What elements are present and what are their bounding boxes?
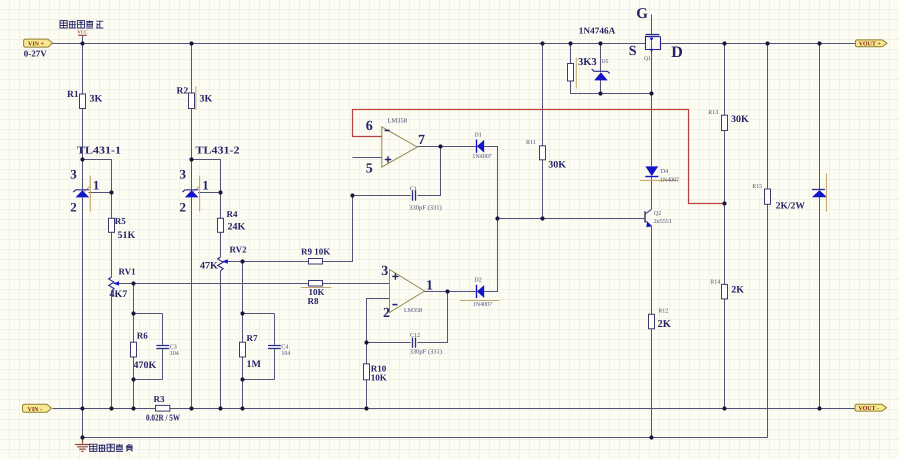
svg-text:TL431-1: TL431-1 — [77, 146, 121, 157]
wire MOSFET gate stem from G — [651, 15, 653, 35]
wire RV1 wiper tap down to R6C3 — [133, 284, 135, 314]
svg-text:2K/2W: 2K/2W — [776, 201, 806, 211]
wire C4 leads — [274, 314, 276, 380]
wire top rail MOSFET D stub to VOUT+ — [661, 43, 856, 45]
svg-text:1M: 1M — [247, 359, 262, 370]
wire R7C4 down to rail — [242, 380, 244, 409]
svg-text:1N4007: 1N4007 — [472, 154, 491, 160]
wire C1 right lead up to output — [417, 147, 440, 196]
port VOUT- — [855, 404, 887, 412]
svg-text:R7: R7 — [247, 333, 258, 343]
svg-text:C4: C4 — [281, 344, 288, 350]
svg-text:1: 1 — [93, 178, 100, 193]
svg-text:LM358: LM358 — [388, 118, 408, 125]
svg-text:G: G — [636, 6, 648, 22]
resistor R5 — [109, 216, 136, 241]
wire clamp bottom bar — [571, 93, 652, 95]
svg-text:47K: 47K — [200, 261, 218, 272]
wire R12 bottom to ground rail — [651, 329, 653, 438]
wire R10 bottom to rail — [366, 380, 368, 409]
wire R9 right lead up to op-amp1 pin5 chain — [323, 196, 353, 262]
svg-text:3: 3 — [381, 264, 388, 279]
resistor R6 — [131, 331, 157, 371]
wire R11 top lead from rail — [542, 44, 544, 146]
label 远动电源 正 (net name, positive supply) — [60, 21, 103, 28]
svg-text:2: 2 — [70, 200, 77, 215]
svg-text:104: 104 — [170, 351, 179, 357]
svg-text:51K: 51K — [118, 230, 136, 241]
svg-text:VIN -: VIN - — [28, 407, 43, 413]
resistor R2 — [177, 86, 213, 110]
wire RV2 bottom to rail — [220, 271, 222, 409]
wire R13 to R14 — [724, 131, 726, 285]
svg-text:D5: D5 — [602, 59, 609, 65]
svg-text:3K: 3K — [90, 94, 103, 105]
transistor Q2 2n5551 — [645, 209, 672, 227]
capacitor C12 — [410, 333, 442, 355]
wire R6 leads — [133, 314, 135, 380]
svg-text:C1: C1 — [410, 186, 417, 192]
wire R2 top lead — [191, 44, 193, 94]
resistor R13 — [708, 110, 749, 131]
wire R14 bottom to rail — [724, 299, 726, 409]
wire op-amp1 output to D1 — [417, 146, 476, 148]
resistor R10 — [364, 364, 387, 383]
wire TL431-2 anode down to bottom rail — [191, 198, 193, 409]
wire R1 top lead — [82, 44, 84, 95]
wire RV2 wiper tap down to R7C4 — [242, 262, 244, 314]
diode D4 1N4007 — [640, 166, 679, 183]
wire R4 bottom to RV2 — [220, 232, 222, 257]
wire R6C3 down to rail — [133, 380, 135, 409]
svg-text:5: 5 — [366, 162, 373, 177]
wire C3 leads — [162, 314, 164, 380]
label 远动电源 负 (net name, negative supply) — [90, 444, 133, 451]
svg-text:R13: R13 — [708, 110, 718, 116]
wire R5 top lead — [111, 193, 113, 219]
resistor R11 — [526, 140, 566, 170]
MOSFET Q1 — [629, 6, 683, 62]
wire R7 leads — [242, 314, 244, 380]
wire RV1 bottom to rail — [111, 291, 113, 409]
wire red net op-amp1 pin6 to R13/R14 junction — [353, 110, 725, 204]
wire D5 bottom lead — [600, 80, 602, 93]
svg-text:330pF (331): 330pF (331) — [410, 348, 442, 355]
wire R6C3 top bar — [134, 313, 163, 315]
wire D4 to Q2 collector — [651, 177, 653, 210]
svg-text:24K: 24K — [228, 222, 246, 233]
wire R8 right lead to op-amp2 pin3 — [323, 283, 390, 285]
resistor R14 — [710, 279, 744, 299]
svg-text:2: 2 — [383, 306, 390, 321]
svg-text:2K: 2K — [658, 319, 672, 330]
wire TL431-1 anode down to bottom rail — [82, 198, 84, 409]
ground symbol — [75, 438, 90, 452]
svg-text:VOUT +: VOUT + — [859, 41, 882, 47]
resistor R15 — [752, 184, 805, 211]
svg-text:2K: 2K — [731, 285, 744, 296]
resistor R16 3K3 — [568, 26, 616, 89]
svg-text:6: 6 — [366, 119, 373, 134]
svg-text:VIN +: VIN + — [28, 42, 45, 48]
svg-text:7: 7 — [418, 133, 425, 148]
op-amp U1A LM358 — [366, 118, 425, 177]
wire R4 top lead — [220, 193, 222, 219]
svg-text:D: D — [671, 44, 683, 61]
wire R6C3 bottom bar — [134, 379, 163, 381]
svg-text:330pF (331): 330pF (331) — [409, 204, 441, 211]
wire TL431-1 ref pin1 — [89, 192, 112, 194]
wire D1 to drop node — [484, 147, 497, 219]
wire op-amp2 pin2 feedback — [367, 299, 390, 343]
wire R7C4 bottom bar — [243, 379, 275, 381]
wire RV2 wiper to R9 — [227, 261, 309, 263]
wire RV1 wiper to R8 line — [118, 283, 309, 285]
svg-text:R5: R5 — [115, 216, 126, 226]
wire ground drop from bottom rail — [82, 409, 84, 438]
capacitor C3 — [156, 344, 178, 357]
svg-text:S: S — [629, 44, 637, 59]
svg-text:3K: 3K — [200, 94, 213, 105]
wire C12 left branch — [367, 342, 411, 344]
svg-text:R9 10K: R9 10K — [301, 247, 330, 257]
wire Q2 emitter down to R12 — [651, 226, 653, 314]
diode D2 1N4007 — [460, 278, 500, 308]
op-amp U1B LM358 — [381, 264, 433, 321]
wire R13 chain top — [724, 44, 726, 116]
resistor R7 — [240, 333, 262, 370]
potentiometer RV2 — [200, 245, 247, 272]
wire op-amp1 pin5 — [353, 157, 382, 159]
svg-text:R4: R4 — [227, 209, 238, 219]
wire bottom rail R3 to VOUT- — [170, 408, 855, 410]
svg-text:D4: D4 — [661, 169, 668, 175]
wire R7C4 top bar — [243, 313, 275, 315]
svg-text:30K: 30K — [731, 114, 749, 125]
resistor R4 — [218, 209, 246, 233]
TL431 U1 TL431-1 — [70, 146, 121, 215]
resistor R12 — [649, 308, 672, 330]
svg-text:R6: R6 — [137, 331, 148, 341]
diode D1 1N4007 — [472, 133, 491, 161]
svg-text:TL431-2: TL431-2 — [196, 146, 240, 157]
svg-text:1N4007: 1N4007 — [660, 177, 679, 183]
svg-text:R14: R14 — [710, 279, 720, 285]
svg-text:R12: R12 — [658, 308, 668, 314]
svg-text:R11: R11 — [526, 140, 536, 146]
wire D2 to rise node — [484, 219, 497, 292]
wire TL431-2 feedback top — [192, 160, 221, 193]
wire TL431-2 ref pin1 — [198, 192, 221, 194]
svg-text:D1: D1 — [474, 133, 481, 139]
svg-text:3K3: 3K3 — [578, 57, 597, 68]
svg-text:R8: R8 — [308, 296, 319, 306]
wire R5 bottom to RV1 — [111, 232, 113, 277]
wire op-amp2 output to D2 — [425, 291, 476, 293]
wire R15 chain bottom corner — [767, 204, 769, 437]
svg-text:2: 2 — [180, 200, 187, 215]
svg-text:0-27V: 0-27V — [24, 49, 47, 59]
power flag VCC — [77, 30, 88, 36]
svg-text:R2: R2 — [177, 87, 189, 97]
svg-text:R1: R1 — [67, 90, 79, 100]
wire output diode column bottom — [819, 197, 821, 409]
wire VCC stem — [82, 35, 84, 43]
svg-text:RV2: RV2 — [230, 245, 248, 255]
wire 3K3 top lead — [570, 44, 572, 64]
wire R1 bottom to TL431-1 cathode — [82, 109, 84, 192]
svg-text:RV1: RV1 — [119, 267, 137, 277]
resistor R3 — [146, 394, 180, 423]
resistor R1 — [67, 90, 103, 109]
wire bottom-most ground rail — [83, 437, 768, 439]
wire bottom rail VIN- to R3 — [53, 408, 156, 410]
wire diode node to Q2 base — [498, 218, 646, 220]
svg-text:470K: 470K — [134, 360, 157, 371]
TL431 U2 TL431-2 — [180, 146, 240, 215]
svg-text:VOUT -: VOUT - — [858, 406, 879, 412]
svg-text:3: 3 — [180, 167, 187, 182]
svg-text:C12: C12 — [410, 333, 420, 339]
wire MOSFET source column down to D4 — [651, 41, 653, 166]
svg-text:0.02R / 5W: 0.02R / 5W — [146, 413, 180, 423]
resistor R9 — [301, 247, 330, 265]
svg-text:3: 3 — [70, 167, 77, 182]
wire 3K3 bottom lead — [570, 81, 572, 94]
port VIN- — [23, 404, 52, 413]
wire R11 bottom to base line — [542, 160, 544, 219]
resistor R8 — [301, 281, 332, 307]
svg-text:4K7: 4K7 — [110, 289, 128, 300]
zener diode D5 — [592, 59, 610, 81]
svg-text:104: 104 — [281, 351, 290, 357]
svg-text:10K: 10K — [371, 373, 387, 383]
wire output diode column top — [819, 44, 821, 190]
svg-text:30K: 30K — [548, 159, 566, 170]
capacitor C1 — [409, 186, 441, 211]
svg-text:1: 1 — [426, 279, 433, 294]
wire R10 top lead — [366, 343, 368, 364]
svg-text:2n5551: 2n5551 — [654, 219, 672, 225]
port VIN+ — [24, 39, 53, 48]
wire top rail VIN+ to MOSFET S stub — [53, 43, 646, 45]
svg-text:LM358: LM358 — [404, 308, 422, 314]
wire R2 bottom to TL431-2 cathode — [191, 109, 193, 192]
wire C12 right lead up to output — [417, 292, 447, 343]
potentiometer RV1 — [109, 267, 136, 301]
svg-text:R15: R15 — [752, 184, 762, 190]
svg-text:1N4007: 1N4007 — [473, 302, 492, 308]
svg-text:1: 1 — [202, 178, 209, 193]
capacitor C4 — [268, 344, 290, 357]
svg-text:VCC: VCC — [77, 30, 88, 36]
zener clamp wires 3K3/D5 block — [571, 15, 820, 438]
wire R15 top lead — [767, 44, 769, 190]
port VOUT+ — [855, 40, 887, 48]
wire D5 top lead — [600, 44, 602, 72]
wire op-amp1 C1 branch — [353, 195, 411, 197]
svg-text:Q1: Q1 — [644, 56, 651, 62]
svg-text:1N4746A: 1N4746A — [579, 26, 616, 36]
output clamp diode — [812, 173, 827, 211]
svg-text:D2: D2 — [474, 278, 481, 284]
wire TL431-1 feedback top — [83, 160, 112, 193]
svg-text:Q2: Q2 — [654, 211, 661, 217]
svg-text:R3: R3 — [154, 394, 165, 404]
svg-text:C3: C3 — [170, 344, 177, 350]
